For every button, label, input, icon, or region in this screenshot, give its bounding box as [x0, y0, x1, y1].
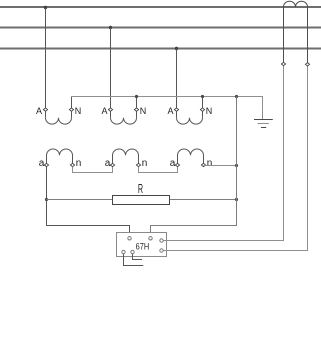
pin terminal N of T1 — [69, 108, 73, 111]
wire T1 N lead up to neutral rail — [71, 97, 73, 118]
ground — [254, 120, 273, 128]
wire right VT lead upper part — [307, 7, 309, 64]
svg-text:A: A — [102, 106, 108, 116]
pin terminal on right VT lead — [305, 63, 309, 66]
wire bus phase A (top) — [0, 6, 321, 8]
wire T3 N lead up to neutral rail — [202, 97, 204, 118]
node junction rail to relay bus — [235, 95, 238, 98]
svg-text:n: n — [142, 158, 148, 169]
svg-text:a: a — [39, 158, 45, 169]
wire drop phase B to T2 — [110, 28, 112, 118]
pin terminal right-upper of relay — [160, 239, 163, 242]
transformer T3 primary winding — [177, 118, 203, 124]
svg-text:N: N — [140, 106, 147, 116]
pin terminal n of T1 secondary — [70, 163, 74, 166]
pin terminal right-lower of relay — [160, 249, 163, 252]
wire relay voltage input upper — [163, 64, 283, 241]
pin terminal n of T3 secondary — [201, 163, 205, 166]
wire link n1 to a2 — [73, 167, 113, 173]
pin terminal on left VT lead — [281, 62, 285, 65]
wire R rail — [47, 199, 237, 201]
wire left VT lead upper part — [283, 7, 285, 64]
svg-text:n: n — [76, 158, 82, 169]
wire neutral rail — [72, 97, 263, 120]
wire T2 N lead up to neutral rail — [136, 97, 138, 118]
pin terminal A of T2 — [108, 108, 112, 111]
transformer VT winding at top right — [284, 1, 308, 7]
svg-text:N: N — [75, 106, 82, 116]
wire link n3 to relay bus — [204, 165, 237, 167]
svg-text:R: R — [138, 181, 143, 196]
node junction drop1-busA — [44, 6, 47, 9]
pin terminal top-left of relay — [128, 237, 131, 240]
svg-text:a: a — [105, 158, 111, 169]
transformer T1 primary winding — [46, 118, 72, 124]
pin terminal n of T2 secondary — [136, 163, 140, 166]
wire drop phase A to T1 — [45, 8, 47, 118]
wire link n2 to a3 — [139, 167, 178, 173]
pin terminal N of T3 — [200, 108, 204, 111]
node junction n3 on relay bus — [235, 164, 238, 167]
pin terminal a of T2 secondary — [110, 163, 114, 166]
node junction T3 N on rail — [201, 95, 204, 98]
wire bus phase C (bottom) — [0, 48, 321, 50]
pin terminal a of T3 secondary — [175, 163, 179, 166]
node junction a1 with R rail — [45, 198, 48, 201]
svg-text:a: a — [170, 158, 176, 169]
transformer T2 primary winding — [111, 118, 137, 124]
pin terminal A of T3 — [174, 108, 178, 111]
wire bus phase B (middle) — [0, 27, 321, 29]
pin terminal top-right of relay — [149, 237, 152, 240]
wire drop phase C to T3 — [176, 49, 178, 118]
resistor R — [113, 196, 170, 205]
transformer T1 secondary winding — [47, 149, 73, 165]
svg-text:A: A — [168, 106, 174, 116]
wire relay voltage input lower — [163, 64, 307, 250]
node junction drop2-busB — [109, 26, 112, 29]
pin terminal A of T1 — [43, 108, 47, 111]
pin terminal bottom-left-2 of relay — [131, 250, 134, 253]
pin terminal a of T1 secondary — [44, 163, 48, 166]
node junction drop3-busC — [175, 47, 178, 50]
transformer T2 secondary winding — [113, 149, 139, 165]
svg-text:N: N — [206, 106, 213, 116]
pin terminal bottom-left-1 of relay — [122, 250, 125, 253]
svg-text:n: n — [207, 158, 213, 169]
svg-text:67H: 67H — [136, 242, 150, 252]
wire a1 down lead — [47, 167, 130, 238]
wire relay bus vertical — [151, 97, 237, 239]
svg-text:A: A — [36, 106, 42, 116]
pin terminal N of T2 — [134, 108, 138, 111]
node junction R rail with relay bus — [235, 198, 238, 201]
transformer T3 secondary winding — [178, 149, 204, 165]
wire relay tail 1 — [133, 254, 143, 260]
wire relay tail 2 — [124, 254, 144, 266]
relay 67N box — [117, 233, 167, 257]
node junction T2 N on rail — [135, 95, 138, 98]
